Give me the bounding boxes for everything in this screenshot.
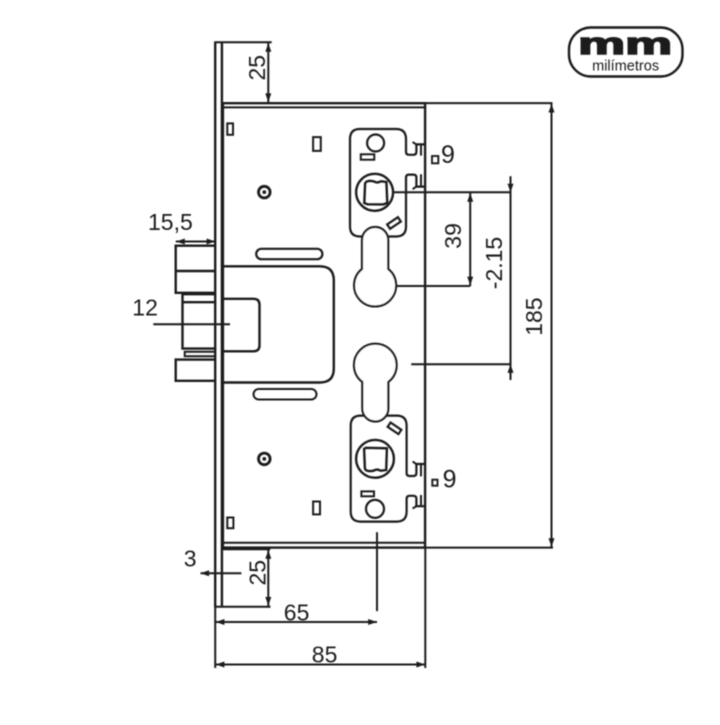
- arrow -2.15 lower (outside, pointing up): [508, 364, 514, 373]
- dim 85 ext left: [214, 607, 216, 668]
- arrow 185 down: [549, 538, 555, 547]
- latch bolt foot: [185, 352, 216, 357]
- bottom plate screw circle: [366, 500, 384, 518]
- arrow 39 down: [467, 277, 473, 286]
- dim 25 bottom line: [267, 549, 269, 606]
- dim 85 ext right: [424, 549, 426, 669]
- top keyhole center ext line: [396, 285, 471, 287]
- top plate clip tab upper: [413, 142, 421, 156]
- faceplate top cap / 25-dim extension line: [214, 41, 272, 43]
- arrow 3 left: [201, 570, 210, 576]
- top plate screw circle: [367, 135, 384, 152]
- arrow 15,5 right: [207, 239, 216, 245]
- latch bolt bevel step: [183, 294, 216, 348]
- bottom follower plate outline: [351, 416, 426, 522]
- lock case outline: [223, 103, 425, 547]
- arrow 85 left: [216, 662, 225, 668]
- dim 185 ext bottom: [425, 547, 553, 549]
- svg-text:25: 25: [244, 55, 270, 81]
- svg-text:3: 3: [184, 546, 197, 572]
- top plate small rect: [361, 154, 375, 159]
- faceplate right edge: [221, 42, 223, 607]
- bottom spindle square: [364, 448, 387, 471]
- bottom plate angled rect: [388, 423, 402, 435]
- svg-text:185: 185: [521, 297, 547, 335]
- top rivet: [259, 186, 271, 198]
- dimension square symbol top (9mm square hole): [432, 156, 438, 163]
- dim 65 ext right: [376, 532, 378, 611]
- dim 25 bottom ext top: [223, 548, 270, 550]
- svg-text:25: 25: [245, 560, 271, 586]
- dim 15,5 line: [176, 241, 216, 243]
- dimension lines: [153, 42, 553, 668]
- svg-text:-2.15: -2.15: [481, 237, 507, 289]
- arrow 25bot up: [265, 550, 271, 559]
- bottom rivet: [259, 453, 271, 465]
- bottom plate clip tab upper: [413, 461, 421, 476]
- latch inner rectangle: [223, 299, 260, 352]
- dim 185 ext top: [425, 102, 552, 104]
- small tab mark top-middle: [313, 137, 321, 151]
- svg-text:39: 39: [440, 223, 466, 249]
- small tab mark bottom-middle: [313, 502, 320, 515]
- bottom slot: [254, 389, 317, 400]
- top plate clip tab lower: [413, 174, 421, 189]
- svg-text:9: 9: [443, 465, 457, 493]
- case inner top line: [223, 106, 425, 108]
- latch bolt upper flange: [176, 246, 216, 293]
- faceplate bottom cap / 25-dim extension line: [214, 606, 270, 608]
- svg-text:milímetros: milímetros: [592, 59, 659, 75]
- top spindle circle: [356, 174, 393, 211]
- arrow 65 right: [368, 619, 377, 625]
- arrow 39 up: [467, 193, 473, 202]
- svg-text:9: 9: [441, 141, 455, 169]
- logo pill border: [569, 28, 683, 77]
- top plate angled rect: [387, 217, 401, 229]
- arrow 25bot down: [265, 597, 271, 606]
- bottom plate small rect: [361, 491, 374, 496]
- arrow 15,5 left: [176, 239, 185, 245]
- dim 3 leader: [201, 572, 242, 574]
- small tab mark top-left: [227, 123, 233, 134]
- latch bolt lower flange: [176, 360, 216, 381]
- arrow -2.15 upper (outside, pointing down): [508, 184, 514, 193]
- top spindle square: [364, 181, 387, 205]
- dimension square symbol bottom: [432, 480, 437, 486]
- faceplate left edge: [214, 42, 216, 607]
- small tab mark bottom-left: [227, 518, 233, 529]
- case inner bottom line: [223, 542, 425, 544]
- bottom keyhole center ext line: [411, 363, 511, 365]
- svg-text:15,5: 15,5: [148, 209, 193, 235]
- bottom plate clip tab lower: [413, 495, 421, 509]
- svg-text:12: 12: [132, 295, 158, 321]
- spindle center ext line: [394, 191, 512, 193]
- arrow 25top down: [265, 93, 271, 102]
- dim 39 line: [469, 192, 471, 286]
- dim 25 top line: [267, 42, 269, 102]
- svg-text:65: 65: [284, 599, 310, 625]
- dim 85 line: [215, 664, 425, 666]
- arrowheads: [176, 43, 554, 667]
- dim -2.15 line: [510, 176, 512, 380]
- arrow 25top up: [265, 43, 271, 52]
- dim 65 line: [215, 621, 377, 623]
- arrow 85 right: [416, 662, 425, 668]
- top slot: [256, 249, 322, 259]
- bottom spindle circle: [356, 440, 394, 478]
- arrow 185 up: [549, 104, 555, 113]
- bottom keyhole: [354, 344, 397, 422]
- dim 12 leader: [153, 323, 230, 325]
- top keyhole: [354, 227, 396, 306]
- svg-text:mm: mm: [578, 26, 672, 61]
- dim 185 line: [551, 103, 553, 547]
- arrow 65 left: [216, 619, 225, 625]
- svg-text:85: 85: [312, 641, 338, 667]
- follower housing: [223, 266, 334, 382]
- top follower plate outline: [350, 129, 425, 237]
